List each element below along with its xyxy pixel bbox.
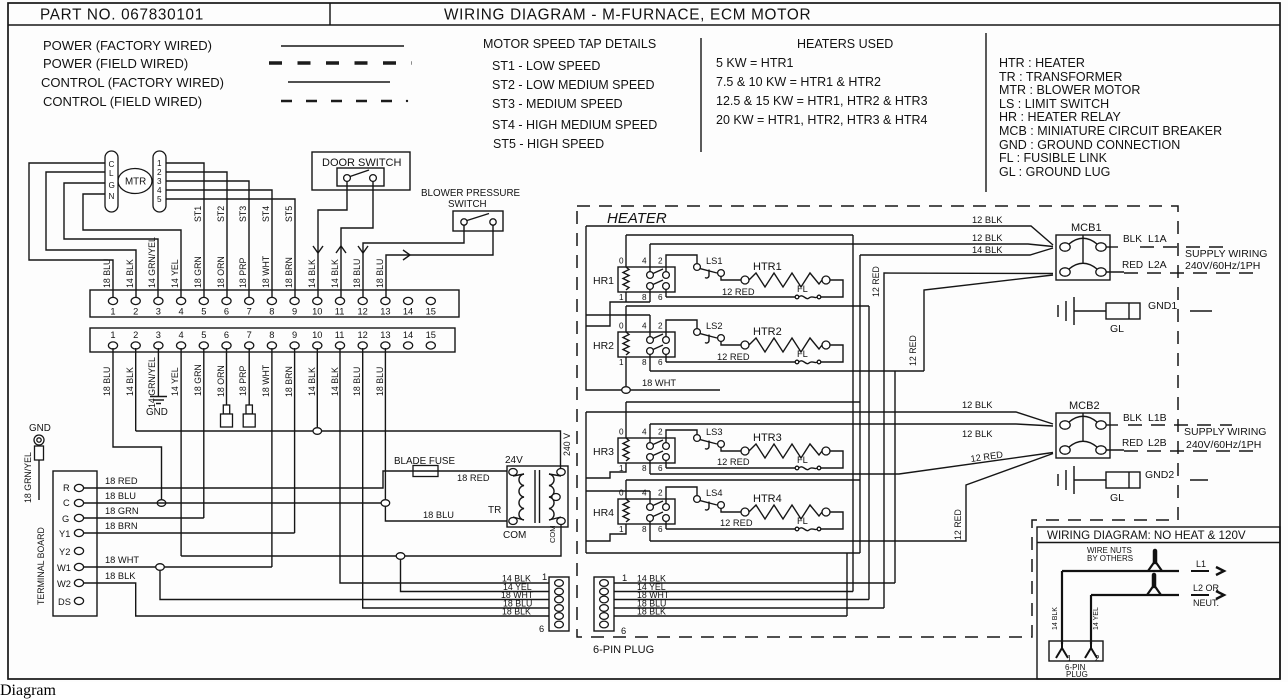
wire HTR1 12RED up to MCB1 — [884, 273, 1053, 297]
wire HTR2 12RED to MCB1 via v924 — [924, 275, 1053, 371]
svg-text:18 BLU: 18 BLU — [102, 367, 112, 396]
svg-text:10: 10 — [312, 307, 322, 317]
svg-text:12 RED: 12 RED — [717, 352, 750, 362]
svg-text:3: 3 — [157, 177, 162, 186]
wire MCB2 L2B stub — [1107, 449, 1125, 451]
svg-text:L1: L1 — [1196, 559, 1206, 569]
svg-text:GND: GND — [29, 423, 51, 434]
svg-text:LS : LIMIT SWITCH: LS : LIMIT SWITCH — [999, 97, 1109, 111]
crimp pin 1 — [1056, 642, 1068, 658]
svg-text:G: G — [109, 181, 115, 190]
svg-text:6-PIN PLUG: 6-PIN PLUG — [593, 644, 654, 656]
svg-text:18 RED: 18 RED — [457, 473, 490, 483]
svg-text:FL: FL — [797, 284, 808, 294]
HR1 pin wires — [625, 235, 627, 267]
HR2 pin wires — [625, 306, 627, 332]
heater element HTR3 — [741, 444, 830, 458]
svg-text:HTR3: HTR3 — [753, 432, 782, 444]
wire 14BLK to MCB1 — [860, 248, 1053, 255]
svg-text:14 GRN/YEL: 14 GRN/YEL — [147, 237, 157, 288]
wire HR1 pin4 12BLK to MCB1 — [650, 244, 1053, 247]
svg-text:3: 3 — [156, 330, 161, 340]
svg-text:12 RED: 12 RED — [717, 457, 750, 467]
door switch DS box — [312, 152, 410, 190]
wire strip2-4 to 14YEL bus — [180, 348, 182, 556]
svg-text:HEATERS USED: HEATERS USED — [797, 37, 893, 51]
svg-text:12 RED: 12 RED — [871, 266, 881, 297]
svg-text:3: 3 — [156, 307, 161, 317]
divider line 2 — [985, 33, 987, 192]
svg-text:11: 11 — [335, 330, 345, 340]
svg-text:ST3: ST3 — [238, 206, 248, 222]
wire tap4 to terminal 8 — [166, 190, 272, 297]
svg-text:GND: GND — [146, 407, 168, 418]
divider line 1 — [700, 38, 702, 152]
svg-text:7: 7 — [247, 307, 252, 317]
wire bus D — [883, 297, 885, 608]
crimp pin 2 — [1085, 642, 1097, 658]
svg-text:BLK: BLK — [1123, 413, 1142, 424]
svg-text:5: 5 — [201, 307, 206, 317]
svg-text:18 ORN: 18 ORN — [216, 256, 226, 288]
dashed supply L2B — [1124, 450, 1262, 452]
junction node 14YEL bus — [396, 553, 405, 560]
svg-text:POWER (FACTORY WIRED): POWER (FACTORY WIRED) — [43, 38, 212, 53]
wire plug row2 right — [614, 591, 853, 593]
plug stub terminal 7 — [246, 405, 252, 414]
svg-text:18 PRP: 18 PRP — [238, 366, 248, 396]
fusible link FL1 — [795, 295, 821, 299]
svg-text:ST2: ST2 — [216, 206, 226, 222]
heater dashed enclosure — [577, 206, 1178, 637]
wire W1 node to plug row3 — [160, 571, 549, 600]
svg-text:BLK: BLK — [1123, 234, 1142, 245]
wire LS1 to HTR1 — [721, 276, 741, 280]
svg-text:L: L — [109, 169, 114, 178]
wire blower switch left to terminal 12 — [363, 225, 464, 297]
svg-text:14 BLK: 14 BLK — [972, 245, 1003, 255]
svg-text:MTR : BLOWER MOTOR: MTR : BLOWER MOTOR — [999, 83, 1140, 97]
wire HTR2 return loop — [821, 345, 843, 362]
svg-text:SUPPLY WIRING: SUPPLY WIRING — [1185, 248, 1267, 260]
svg-text:GL: GL — [1110, 492, 1124, 504]
header part-no divider — [329, 3, 331, 25]
chassis ground GND — [150, 396, 167, 398]
wire plug row5 right — [614, 615, 847, 617]
heater element HTR1 — [741, 273, 830, 287]
wire 12BLK to MCB2 top — [586, 412, 1053, 424]
svg-text:6: 6 — [224, 330, 229, 340]
svg-text:HTR1: HTR1 — [753, 261, 782, 273]
svg-text:HTR4: HTR4 — [753, 493, 782, 505]
HR3 pin wires — [625, 402, 627, 438]
heater element HTR4 — [741, 505, 830, 519]
svg-text:HR3: HR3 — [593, 446, 614, 458]
svg-text:18 BLK: 18 BLK — [502, 607, 531, 617]
svg-text:ST3 - MEDIUM SPEED: ST3 - MEDIUM SPEED — [492, 97, 623, 111]
svg-text:6: 6 — [224, 307, 229, 317]
wire motor L to terminal 2 — [46, 172, 136, 297]
svg-text:5: 5 — [157, 195, 162, 204]
wire strip2-1 to C node — [113, 348, 162, 503]
wire LS2 to HTR2 — [721, 341, 741, 345]
svg-text:ST1 - LOW SPEED: ST1 - LOW SPEED — [492, 59, 600, 73]
svg-text:14 BLK: 14 BLK — [307, 259, 317, 288]
svg-text:CONTROL (FACTORY WIRED): CONTROL (FACTORY WIRED) — [41, 75, 224, 90]
wire HTR3 return loop — [821, 451, 843, 468]
svg-text:240 V: 240 V — [562, 433, 572, 456]
wire LS4 to HTR4 — [721, 508, 741, 512]
terminal strip upper — [90, 290, 459, 317]
svg-text:240V/60Hz/1PH: 240V/60Hz/1PH — [1185, 260, 1260, 272]
svg-text:2: 2 — [133, 330, 138, 340]
svg-text:14: 14 — [403, 307, 413, 317]
svg-text:PART NO. 067830101: PART NO. 067830101 — [40, 7, 204, 24]
wire node to plug row2 — [401, 560, 550, 592]
wire strip2-5 18GRN down — [203, 348, 205, 518]
svg-text:SUPPLY WIRING: SUPPLY WIRING — [1184, 426, 1266, 438]
wire nut 1 — [1148, 561, 1162, 571]
svg-text:MTR: MTR — [125, 177, 146, 188]
wire MCB1 L1A stub — [1107, 246, 1119, 248]
svg-text:5 KW = HTR1: 5 KW = HTR1 — [716, 56, 793, 70]
svg-text:14 YEL: 14 YEL — [170, 367, 180, 396]
wire HR2 pin8 bus — [650, 370, 924, 372]
svg-text:4: 4 — [179, 330, 184, 340]
svg-text:TERMINAL BOARD: TERMINAL BOARD — [36, 527, 46, 605]
svg-text:N: N — [109, 192, 115, 201]
svg-text:18 BRN: 18 BRN — [105, 521, 138, 531]
terminal board box — [53, 471, 97, 616]
svg-text:COM: COM — [548, 526, 557, 544]
svg-text:13: 13 — [380, 330, 390, 340]
wire fuse to transformer 24V — [438, 470, 507, 472]
svg-text:4: 4 — [179, 307, 184, 317]
svg-text:GND2: GND2 — [1145, 469, 1174, 481]
dashed supply L1B — [1128, 424, 1232, 426]
svg-text:14 BLK: 14 BLK — [307, 367, 317, 396]
svg-text:FL: FL — [797, 455, 808, 465]
svg-text:NEUT.: NEUT. — [1193, 598, 1219, 608]
wire bus F — [846, 553, 848, 616]
svg-text:14 YEL: 14 YEL — [1093, 607, 1100, 630]
wire motor C to terminal 1 — [29, 163, 113, 297]
svg-text:HTR2: HTR2 — [753, 326, 782, 338]
wire HR3 pin0 bus — [626, 401, 860, 403]
fusible link FL4 — [795, 527, 821, 531]
svg-text:2: 2 — [133, 307, 138, 317]
svg-text:FL : FUSIBLE LINK: FL : FUSIBLE LINK — [999, 151, 1108, 165]
wire L1 — [1062, 570, 1179, 572]
svg-text:14 BLK: 14 BLK — [1052, 607, 1059, 630]
blower pressure switch box — [453, 211, 503, 231]
svg-text:18 BLU: 18 BLU — [352, 367, 362, 396]
terminals strip1 1-15 — [108, 297, 117, 304]
svg-text:12 RED: 12 RED — [953, 509, 963, 540]
svg-text:18 BLU: 18 BLU — [105, 491, 136, 501]
svg-text:LS1: LS1 — [706, 256, 723, 266]
svg-text:L2A: L2A — [1148, 259, 1167, 271]
limit switch LS4 — [694, 496, 725, 510]
wire bus B — [859, 255, 861, 553]
svg-text:1: 1 — [110, 330, 115, 340]
svg-text:18 RED: 18 RED — [105, 476, 138, 486]
wire strip2-9 18BRN down — [294, 348, 296, 533]
svg-text:WIRING DIAGRAM: NO HEAT & 120V: WIRING DIAGRAM: NO HEAT & 120V — [1047, 529, 1246, 542]
svg-text:HEATER: HEATER — [607, 210, 667, 227]
svg-text:MOTOR SPEED TAP DETAILS: MOTOR SPEED TAP DETAILS — [483, 37, 656, 51]
svg-text:12 BLK: 12 BLK — [972, 233, 1003, 243]
svg-text:18 BLU: 18 BLU — [102, 259, 112, 288]
svg-text:7.5 & 10 KW = HTR1 & HTR2: 7.5 & 10 KW = HTR1 & HTR2 — [716, 75, 881, 89]
svg-text:ST4: ST4 — [261, 206, 271, 222]
svg-text:ST5 - HIGH SPEED: ST5 - HIGH SPEED — [493, 137, 604, 151]
wire door switch left to terminal 10 — [318, 182, 347, 298]
svg-text:Y1: Y1 — [59, 529, 70, 539]
wire strip2-3 to chassis ground — [157, 348, 159, 396]
svg-text:DS: DS — [58, 597, 71, 607]
svg-text:DOOR SWITCH: DOOR SWITCH — [322, 157, 401, 169]
svg-text:POWER (FIELD WIRED): POWER (FIELD WIRED) — [43, 56, 188, 71]
wire door switch right to terminal 11 — [341, 182, 373, 298]
svg-text:12 RED: 12 RED — [720, 518, 753, 528]
svg-text:1: 1 — [110, 307, 115, 317]
six pin plug right half — [594, 577, 614, 631]
wire motor N to terminal 4 — [83, 194, 181, 297]
heater inner left bus — [586, 226, 720, 390]
svg-text:C: C — [63, 498, 70, 508]
svg-text:ST5: ST5 — [284, 206, 294, 222]
junction node terminal 10 wire — [313, 428, 322, 435]
svg-text:LS3: LS3 — [706, 427, 723, 437]
wire tap1 to terminal 5 — [166, 163, 204, 297]
junction node W1 row — [156, 564, 165, 571]
svg-text:12 BLK: 12 BLK — [962, 429, 993, 439]
breaker MCB2 — [1056, 413, 1110, 458]
svg-text:12 BLK: 12 BLK — [962, 400, 993, 410]
svg-text:15: 15 — [426, 330, 436, 340]
svg-text:18 BLU: 18 BLU — [352, 259, 362, 288]
wire L2 down to plug — [1090, 595, 1092, 644]
svg-text:HR2: HR2 — [593, 340, 614, 352]
svg-text:L1A: L1A — [1148, 233, 1167, 245]
wire HR2 pin4 bus — [586, 314, 650, 316]
svg-text:18 GRN/YEL: 18 GRN/YEL — [23, 452, 33, 503]
wire motor G to terminal 3 — [64, 183, 158, 297]
svg-text:6: 6 — [539, 624, 544, 634]
svg-text:7: 7 — [247, 330, 252, 340]
svg-text:MCB2: MCB2 — [1069, 400, 1100, 412]
bottom bus heater — [586, 552, 860, 554]
limit switch LS3 — [694, 435, 725, 449]
header divider line — [8, 24, 1280, 26]
terminal strip lower — [90, 328, 455, 352]
svg-text:TR : TRANSFORMER: TR : TRANSFORMER — [999, 70, 1122, 84]
relay HR1 — [618, 257, 675, 303]
svg-text:2: 2 — [157, 168, 162, 177]
svg-text:1: 1 — [622, 573, 627, 583]
svg-text:HTR : HEATER: HTR : HEATER — [999, 56, 1085, 70]
wire plug row4 right — [614, 607, 884, 609]
wire HR4 pin4 bus — [586, 490, 650, 492]
svg-text:14 BLK: 14 BLK — [125, 259, 135, 288]
no-heat wiring box — [1037, 527, 1280, 679]
wire MCB2 L1B stub — [1107, 424, 1119, 426]
junction node 18BLU at transformer — [381, 500, 390, 507]
svg-text:BLOWER PRESSURE: BLOWER PRESSURE — [421, 188, 521, 199]
limit switch LS1 — [694, 264, 725, 278]
svg-text:GND : GROUND CONNECTION: GND : GROUND CONNECTION — [999, 138, 1180, 152]
svg-text:R: R — [63, 483, 70, 493]
wire LS3 to HTR3 — [721, 447, 741, 451]
heater element HTR2 — [741, 338, 830, 352]
ground GND1 — [1058, 297, 1074, 325]
svg-text:24V: 24V — [505, 455, 523, 466]
svg-text:MCB1: MCB1 — [1071, 222, 1102, 234]
wire HR4 pin8 12RED to MCB2 — [650, 454, 1053, 542]
svg-text:13: 13 — [380, 307, 390, 317]
wire 12BLK top bus to MCB1 — [586, 226, 1053, 245]
svg-text:18 BRN: 18 BRN — [284, 257, 294, 288]
wire strip2-12 to plug row4 — [363, 348, 549, 608]
wire L1 down to plug — [1061, 571, 1063, 644]
svg-text:18 WHT: 18 WHT — [261, 255, 271, 288]
svg-text:18 PRP: 18 PRP — [238, 258, 248, 288]
svg-text:8: 8 — [269, 307, 274, 317]
14 BLK bus to transformer 240V — [136, 431, 561, 468]
svg-text:4: 4 — [157, 186, 162, 195]
svg-text:HR4: HR4 — [593, 507, 614, 519]
svg-text:20 KW = HTR1, HTR2, HTR3 & HTR: 20 KW = HTR1, HTR2, HTR3 & HTR4 — [716, 113, 928, 127]
svg-text:18 GRN: 18 GRN — [193, 364, 203, 396]
svg-text:2: 2 — [1095, 654, 1100, 663]
svg-text:MCB : MINIATURE CIRCUIT BREAKE: MCB : MINIATURE CIRCUIT BREAKER — [999, 124, 1222, 138]
svg-text:Y2: Y2 — [59, 547, 70, 557]
svg-text:GL: GL — [1110, 323, 1124, 335]
limit switch LS2 — [694, 329, 725, 343]
junction node on C row — [157, 500, 166, 507]
wire MCB1 L2A stub — [1107, 271, 1125, 273]
svg-text:12 RED: 12 RED — [908, 335, 918, 366]
wire L2 — [1091, 594, 1179, 596]
svg-text:RED: RED — [1122, 260, 1143, 271]
junction node 18WHT — [622, 387, 631, 394]
svg-text:12 BLK: 12 BLK — [972, 215, 1003, 225]
svg-text:HR : HEATER RELAY: HR : HEATER RELAY — [999, 110, 1121, 124]
svg-text:6: 6 — [621, 626, 626, 636]
svg-text:14: 14 — [403, 330, 413, 340]
wire bus A — [852, 235, 854, 592]
wire strip2-13 to C-bus node — [384, 348, 386, 499]
svg-text:14 BLK: 14 BLK — [125, 367, 135, 396]
wire tap3 to terminal 7 — [166, 181, 249, 297]
svg-text:GL : GROUND LUG: GL : GROUND LUG — [999, 165, 1110, 179]
legend line solid control — [288, 81, 390, 83]
svg-text:L1B: L1B — [1148, 412, 1167, 424]
transformer windings — [519, 474, 524, 520]
14 YEL bus to transformer COM — [181, 524, 561, 556]
svg-text:1: 1 — [542, 572, 547, 582]
legend line dashed control — [281, 100, 404, 102]
svg-text:15: 15 — [426, 307, 436, 317]
svg-text:14 YEL: 14 YEL — [170, 259, 180, 288]
ground lug GL1 — [1106, 303, 1140, 319]
wire tap5 to terminal 9 — [166, 199, 295, 297]
svg-text:18 GRN: 18 GRN — [105, 506, 139, 516]
svg-text:HR1: HR1 — [593, 275, 614, 287]
svg-text:12.5 & 15 KW = HTR1, HTR2 & HT: 12.5 & 15 KW = HTR1, HTR2 & HTR3 — [716, 94, 928, 108]
six pin plug left half — [549, 577, 569, 631]
wire blower switch right to terminal 13 — [386, 225, 493, 297]
svg-text:5: 5 — [201, 330, 206, 340]
svg-text:1: 1 — [1067, 654, 1072, 663]
legend line dashed power — [269, 61, 412, 65]
svg-text:9: 9 — [292, 330, 297, 340]
svg-text:C: C — [109, 160, 115, 169]
dashed supply L2A — [1124, 272, 1257, 274]
svg-text:L2 OR: L2 OR — [1193, 583, 1220, 593]
svg-text:9: 9 — [292, 307, 297, 317]
svg-text:18 BRN: 18 BRN — [284, 366, 294, 397]
wire strip2-11 to plug row1 — [340, 348, 549, 583]
motor terminal stadium CLGN — [105, 151, 118, 212]
svg-text:18 WHT: 18 WHT — [105, 555, 139, 565]
svg-text:18 GRN: 18 GRN — [193, 256, 203, 288]
svg-text:CONTROL (FIELD WIRED): CONTROL (FIELD WIRED) — [43, 94, 202, 109]
motor tap stadium 1-5 — [153, 151, 166, 212]
svg-text:18 WHT: 18 WHT — [642, 378, 676, 388]
wire bus C — [868, 306, 870, 600]
wire strip2-10 to node — [316, 348, 318, 427]
wire strip2-6 to plug stub — [226, 348, 228, 405]
svg-text:RED: RED — [1122, 438, 1143, 449]
svg-text:12: 12 — [358, 330, 368, 340]
svg-text:14 BLK: 14 BLK — [330, 259, 340, 288]
wire C node to transformer COM — [385, 507, 507, 521]
relay HR3 — [618, 428, 675, 474]
breaker MCB1 — [1056, 235, 1110, 280]
svg-text:W2: W2 — [57, 579, 71, 589]
fusible link FL3 — [795, 466, 821, 470]
wire ring terminal down — [38, 460, 40, 500]
svg-text:FL: FL — [797, 349, 808, 359]
wire strip2-8 18WHT down — [271, 348, 273, 567]
plug stub terminal 6 — [223, 405, 229, 414]
svg-text:SWITCH: SWITCH — [448, 199, 487, 210]
svg-text:W1: W1 — [57, 563, 71, 573]
wire HR3 pin4 12BLK to MCB2 — [650, 424, 1053, 426]
wire HR2 pin0 bus — [626, 305, 869, 307]
motor MTR ellipse — [118, 169, 152, 194]
svg-text:18 BLU: 18 BLU — [375, 367, 385, 396]
svg-text:18 BLU: 18 BLU — [423, 510, 454, 520]
svg-text:PLUG: PLUG — [1066, 670, 1088, 679]
svg-text:11: 11 — [335, 307, 345, 317]
svg-text:12: 12 — [358, 307, 368, 317]
svg-text:8: 8 — [269, 330, 274, 340]
transformer TR box — [507, 466, 568, 527]
wire nut 2 — [1147, 585, 1161, 595]
relay HR2 — [618, 322, 675, 368]
svg-text:LS2: LS2 — [706, 321, 723, 331]
plug box no-heat — [1049, 641, 1103, 661]
svg-text:COM: COM — [503, 530, 526, 541]
svg-text:ST1: ST1 — [193, 206, 203, 222]
wire HTR4 return loop — [821, 512, 843, 529]
svg-text:240V/60Hz/1PH: 240V/60Hz/1PH — [1186, 439, 1261, 451]
lower section left bus — [585, 412, 587, 553]
svg-text:10: 10 — [312, 330, 322, 340]
